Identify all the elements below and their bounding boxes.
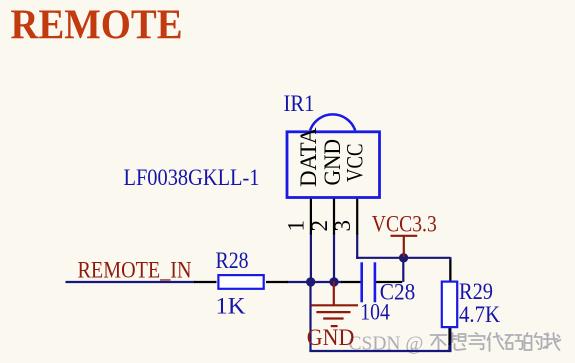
svg-text:1: 1 [284, 220, 309, 232]
svg-text:GND: GND [307, 325, 355, 351]
svg-text:LF0038GKLL-1: LF0038GKLL-1 [124, 165, 260, 191]
svg-text:3: 3 [330, 220, 355, 232]
svg-text:VCC3.3: VCC3.3 [372, 212, 437, 238]
svg-text:4.7K: 4.7K [459, 302, 500, 328]
svg-text:VCC: VCC [343, 144, 368, 183]
svg-text:R28: R28 [216, 248, 249, 274]
svg-text:104: 104 [360, 300, 390, 326]
svg-text:REMOTE_IN: REMOTE_IN [78, 258, 192, 284]
svg-text:2: 2 [307, 220, 332, 232]
svg-text:REMOTE: REMOTE [11, 2, 183, 49]
svg-text:DATA: DATA [296, 127, 321, 187]
svg-text:1K: 1K [216, 294, 246, 320]
svg-text:GND: GND [320, 139, 345, 186]
svg-text:IR1: IR1 [284, 91, 315, 117]
